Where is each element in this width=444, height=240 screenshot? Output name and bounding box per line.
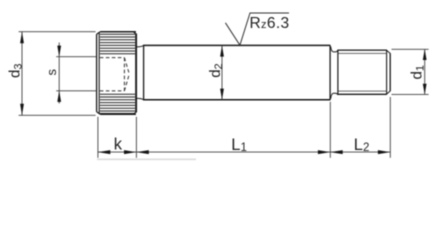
d3 arrows [20, 32, 24, 44]
d1 dim line [424, 49, 426, 94]
k arrows [98, 150, 110, 154]
k ext lines [97, 117, 99, 158]
faint scan artifact [97, 158, 196, 160]
L1 right ext [329, 102, 331, 158]
arrows [20, 32, 427, 154]
neck groove shank-thread [331, 47, 338, 99]
head outline [97, 32, 137, 115]
knurl lines top band [100, 34, 135, 54]
svg-text:k: k [114, 135, 123, 153]
shank outline [143, 45, 330, 99]
svg-text:Rz6.3: Rz6.3 [250, 15, 290, 32]
L2 right ext [389, 97, 391, 158]
s arrows (outside pointing in) [57, 46, 61, 57]
bottom dim line k + L1 + L2 [98, 151, 390, 153]
d2 dim line [221, 45, 223, 99]
hex socket hidden lines [100, 58, 129, 91]
svg-text:s: s [44, 69, 59, 76]
d1 arrows [423, 49, 427, 60]
s dim line [58, 43, 60, 104]
thread root lines [338, 53, 386, 91]
d3 dim line [21, 32, 23, 116]
roughness symbol Rz6.3 [225, 13, 289, 45]
thread outline [338, 50, 391, 95]
knurl lines bottom band [100, 94, 135, 113]
d3 ext lines [19, 31, 96, 33]
s ext lines [56, 56, 96, 58]
d1 ext lines [392, 48, 429, 50]
neck groove head-shank [137, 46, 143, 100]
L2 arrows [330, 150, 342, 154]
d2 arrows [220, 45, 224, 56]
L1 arrows [136, 150, 148, 154]
